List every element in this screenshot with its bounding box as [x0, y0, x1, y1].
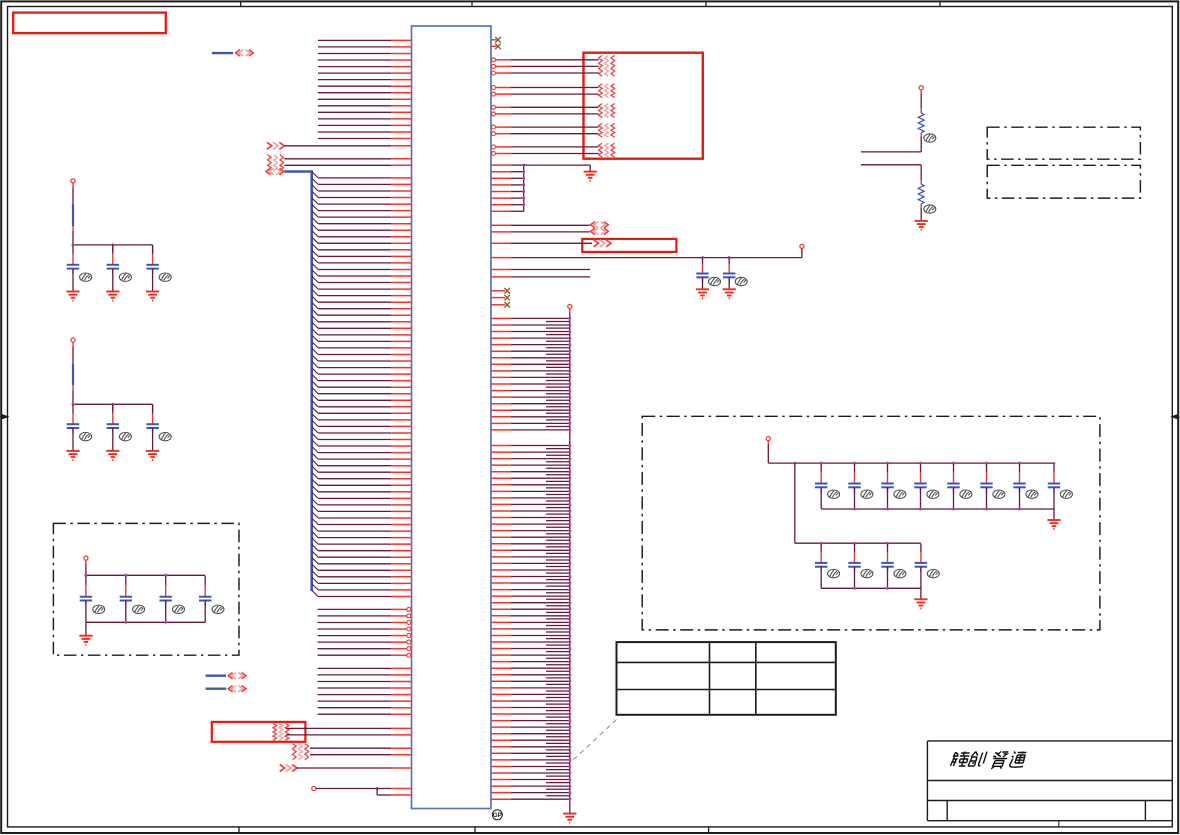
- junction: [522, 183, 525, 186]
- wire U1 right pin trunk: [491, 331, 511, 333]
- no-connect pin: [491, 304, 505, 306]
- wire trunk jog: [546, 690, 570, 692]
- capacitor C row1: [1019, 464, 1021, 473]
- wire trunk jog: [546, 353, 570, 355]
- junction: [985, 508, 988, 511]
- wire bus h: [73, 403, 153, 405]
- bus entry: [312, 329, 319, 335]
- wire U1 left pin bus: [318, 197, 391, 199]
- wire trunk jog: [546, 494, 570, 496]
- capacitor C row1: [820, 464, 822, 473]
- junction: [568, 383, 571, 386]
- wire U1 right pin trunk: [491, 324, 511, 326]
- wire U1 right pin term: [492, 132, 496, 136]
- part value mark: [924, 134, 936, 142]
- wire U1 left pin inv: [318, 628, 392, 630]
- junction: [1018, 462, 1021, 465]
- junction: [886, 542, 889, 545]
- wire bus h row2: [795, 542, 921, 544]
- wire U1 right pin trunk: [491, 733, 511, 735]
- part value mark: [93, 605, 105, 613]
- junction: [124, 574, 127, 577]
- wire trunk jog: [546, 327, 570, 329]
- wire: [165, 601, 167, 623]
- wire trunk jog: [546, 723, 570, 725]
- capacitor C row2: [887, 544, 889, 553]
- bus entry: [312, 342, 319, 348]
- junction: [568, 356, 571, 359]
- wire gnd collector vertical: [523, 165, 525, 211]
- part value mark: [1026, 490, 1038, 498]
- wire U1 right pin trunk: [491, 416, 511, 418]
- dash-dot box B: [987, 165, 1140, 198]
- junction: [568, 627, 571, 630]
- wire U1 right pin trunk: [491, 445, 511, 447]
- wire: [801, 249, 803, 258]
- junction: [568, 700, 571, 703]
- wire: [887, 567, 889, 589]
- wire U1 left pin group1: [318, 138, 391, 140]
- junction: [568, 510, 571, 513]
- part value mark: [173, 605, 185, 613]
- bus entry: [312, 538, 319, 544]
- wire U1 left pin bus: [318, 582, 391, 584]
- ground: [584, 172, 597, 181]
- wire U1 left pin bus: [318, 517, 391, 519]
- no-connect X: [504, 302, 510, 308]
- part value mark: [927, 490, 939, 498]
- junction: [952, 462, 955, 465]
- wire: [854, 567, 856, 589]
- assembly mark: [492, 810, 502, 820]
- wire U1 right pin trunk: [491, 779, 511, 781]
- svg-text:GP: GP: [493, 812, 502, 819]
- junction: [568, 317, 571, 320]
- wire U1 left pin group1: [318, 53, 391, 55]
- wire U1 left pin: [377, 794, 391, 796]
- wire U1 right pin trunk: [491, 523, 511, 525]
- junction: [522, 190, 525, 193]
- wire U1 left pin bus: [318, 190, 391, 192]
- bus entry: [312, 584, 319, 590]
- junction: [72, 243, 75, 246]
- junction: [568, 719, 571, 722]
- capacitor C row1: [986, 464, 988, 473]
- border zone tick top: [705, 1, 707, 6]
- wire U1 left pin bus: [318, 432, 391, 434]
- junction: [568, 595, 571, 598]
- wire U1 left pin bus: [318, 282, 391, 284]
- terminal: [84, 556, 88, 560]
- wire: [112, 269, 114, 292]
- wire U1 right pin trunk: [491, 661, 511, 663]
- revision table: [617, 642, 836, 715]
- junction: [568, 686, 571, 689]
- wire U1 left pin bus: [318, 439, 391, 441]
- terminal: [800, 244, 804, 248]
- junction: [568, 575, 571, 578]
- wire trunk jog: [546, 480, 570, 482]
- junction: [568, 470, 571, 473]
- wire U1 left pin bus: [318, 183, 391, 185]
- junction: [952, 508, 955, 511]
- junction: [568, 337, 571, 340]
- wire trunk jog: [546, 520, 570, 522]
- wire U1 left pin group4: [318, 700, 392, 702]
- terminal: [766, 437, 770, 441]
- wire U1 right pin term: [492, 125, 496, 129]
- border zone tick top: [471, 1, 473, 6]
- wire trunk jog: [546, 566, 570, 568]
- bus entry: [312, 505, 319, 511]
- part value mark: [927, 569, 939, 577]
- wire U1 right pin trunk: [491, 556, 511, 558]
- wire U1 left pin group1: [318, 124, 391, 126]
- capacitor C: [165, 576, 167, 585]
- wire: [953, 487, 955, 509]
- off-page connector: [266, 168, 270, 174]
- wire trunk jog: [546, 795, 570, 797]
- wire trunk jog: [546, 340, 570, 342]
- border zone tick top: [240, 1, 242, 6]
- no-connect pin: [491, 290, 505, 292]
- junction: [568, 641, 571, 644]
- wire gnd stem: [1053, 509, 1055, 520]
- wire U1 right pin trunk: [491, 503, 511, 505]
- junction: [568, 422, 571, 425]
- wire U1 right pin trunk: [491, 759, 511, 761]
- ground: [723, 289, 736, 298]
- wire U1 left pin bus: [318, 393, 391, 395]
- junction: [568, 634, 571, 637]
- junction: [568, 654, 571, 657]
- wire U1 left pin group1: [318, 79, 391, 81]
- bus entry: [312, 551, 319, 557]
- wire: [767, 441, 769, 445]
- capacitor C: [72, 246, 74, 255]
- wire trunk jog: [546, 788, 570, 790]
- wire U1 left pin bus: [318, 327, 391, 329]
- wire U1 left pin inv: [318, 641, 392, 643]
- wire U1 right pin term: [492, 112, 496, 116]
- wire U1 right pin trunk: [491, 409, 511, 411]
- junction: [568, 758, 571, 761]
- wire U1 left pin bus: [318, 380, 391, 382]
- wire trunk jog: [546, 334, 570, 336]
- part value mark: [212, 605, 224, 613]
- bus entry: [312, 237, 319, 243]
- bus entry: [312, 309, 319, 315]
- wire blue segment: [72, 205, 74, 227]
- wire U1 left pin inv: [318, 615, 392, 617]
- wire U1 right pin trunk: [491, 530, 511, 532]
- wire U1 left pin bus: [318, 340, 391, 342]
- wire U1 right pin gnd: [491, 164, 511, 166]
- off-page connector: [280, 765, 285, 772]
- junction: [820, 462, 823, 465]
- wire bus h row2 lower: [821, 587, 921, 589]
- wire stub net: [206, 688, 227, 690]
- wire U1 right pin trunk: [491, 595, 511, 597]
- junction: [568, 516, 571, 519]
- capacitor C: [85, 576, 87, 585]
- wire: [85, 601, 87, 623]
- wire U1 right pin trunk: [491, 785, 511, 787]
- junction: [568, 745, 571, 748]
- wire U1 left pin bus: [318, 543, 391, 545]
- junction: [124, 621, 127, 624]
- wire U1 left pin group4: [318, 667, 392, 669]
- bus entry: [312, 224, 319, 230]
- junction: [568, 673, 571, 676]
- wire U1 left pin group1: [318, 111, 391, 113]
- junction: [568, 660, 571, 663]
- wire U1 right pin: [491, 269, 511, 271]
- wire U1 left pin bus: [318, 223, 391, 225]
- junction: [522, 177, 525, 180]
- wire U1 left pin: [284, 145, 391, 147]
- resistor pack box: [584, 53, 703, 159]
- junction: [886, 587, 889, 590]
- junction: [886, 462, 889, 465]
- wire U1 left pin bus: [318, 412, 391, 414]
- bus entry: [312, 335, 319, 341]
- bus B1 vertical: [310, 170, 313, 591]
- bus entry: [312, 374, 319, 380]
- wire trunk jog: [546, 426, 570, 428]
- wire U1 right pin term: [492, 86, 496, 90]
- wire U1 right pin gnd: [491, 210, 511, 212]
- title text 緯創資通: [950, 752, 970, 767]
- wire trunk jog: [546, 448, 570, 450]
- junction: [568, 464, 571, 467]
- junction: [568, 402, 571, 405]
- wire trunk jog: [546, 736, 570, 738]
- wire U1 left pin bus: [318, 321, 391, 323]
- wire U1 left pin bus: [318, 510, 391, 512]
- wire: [986, 487, 988, 509]
- wire U1 left pin bus: [318, 530, 391, 532]
- junction: [568, 791, 571, 794]
- junction: [522, 203, 525, 206]
- junction: [701, 256, 704, 259]
- wire trunk jog: [546, 399, 570, 401]
- capacitor C: [152, 246, 154, 255]
- resistor R group B: [599, 84, 603, 98]
- junction: [568, 363, 571, 366]
- wire: [85, 560, 87, 564]
- wire U1 left pin bus: [318, 373, 391, 375]
- junction: [1018, 508, 1021, 511]
- off-page connector: [228, 673, 232, 679]
- wire U1 left pin bus: [318, 360, 391, 362]
- part value mark: [993, 490, 1005, 498]
- wire U1 left pin bus: [318, 203, 391, 205]
- wire: [72, 385, 74, 390]
- wire trunk jog: [546, 406, 570, 408]
- title block: [927, 741, 1172, 827]
- wire U1 left pin bus: [318, 589, 391, 591]
- part value mark: [119, 432, 131, 440]
- wire trunk jog: [546, 638, 570, 640]
- junction: [568, 451, 571, 454]
- part value mark: [861, 490, 873, 498]
- junction: [164, 621, 167, 624]
- wire U1 right pin trunk: [491, 569, 511, 571]
- wire U1 right pin trunk: [491, 713, 511, 715]
- junction: [568, 549, 571, 552]
- wire trunk jog: [546, 467, 570, 469]
- bus B1 horizontal: [284, 170, 311, 173]
- wire U1 right pin term: [492, 64, 496, 68]
- wire U1 right pin trunk: [491, 357, 511, 359]
- terminal: [71, 179, 75, 183]
- wire U1 left pin bus: [318, 445, 391, 447]
- capacitor C row1: [1053, 464, 1055, 473]
- off-page connector wavy: [293, 744, 297, 760]
- wire U1 left pin bus: [318, 216, 391, 218]
- wire trunk jog: [546, 605, 570, 607]
- part value mark: [80, 432, 92, 440]
- bus entry: [312, 479, 319, 485]
- wire U1 right pin term: [492, 145, 496, 149]
- wire U1 left pin bus: [318, 497, 391, 499]
- part value mark: [80, 273, 92, 281]
- wire trunk jog: [546, 526, 570, 528]
- wire U1 right pin trunk: [491, 608, 511, 610]
- junction: [568, 608, 571, 611]
- wire trunk jog: [546, 373, 570, 375]
- junction: [376, 787, 379, 790]
- wire U1 left pin bus: [318, 576, 391, 578]
- bus entry: [312, 198, 319, 204]
- capacitor C: [112, 405, 114, 414]
- wire: [152, 428, 154, 451]
- junction: [568, 324, 571, 327]
- wire U1 right pin term: [492, 152, 496, 156]
- wire U1 left pin bus: [318, 177, 391, 179]
- wire U1 right pin trunk: [491, 543, 511, 545]
- wire U1 right pin gnd: [491, 177, 511, 179]
- wire U1 right pin trunk: [491, 687, 511, 689]
- wire U1 left pin: [284, 164, 391, 166]
- wire U1 left pin: [286, 727, 391, 729]
- part value mark: [960, 490, 972, 498]
- wire U1 left pin bus: [318, 491, 391, 493]
- bus entry: [312, 544, 319, 550]
- wire U1 left pin bus: [318, 484, 391, 486]
- ground: [79, 636, 92, 645]
- bus entry: [312, 531, 319, 537]
- off-page connector: [267, 142, 272, 149]
- wire U1 left pin bus: [318, 269, 391, 271]
- bus entry: [312, 276, 319, 282]
- junction: [919, 508, 922, 511]
- junction: [568, 739, 571, 742]
- wire U1 left pin group4: [318, 707, 392, 709]
- wire U1 left pin bus: [318, 471, 391, 473]
- wire U1 left pin bus: [318, 399, 391, 401]
- wire U1 left pin bus: [318, 334, 391, 336]
- wire U1 right pin trunk: [491, 648, 511, 650]
- wire U1 left pin bus: [318, 556, 391, 558]
- wire U1 right pin: [491, 224, 511, 226]
- bus entry: [312, 381, 319, 387]
- wire: [316, 788, 377, 790]
- wire: [861, 164, 921, 166]
- wire trunk jog: [546, 618, 570, 620]
- wire bus h lower: [86, 621, 205, 623]
- wire trunk jog: [546, 461, 570, 463]
- junction: [568, 732, 571, 735]
- wire trunk jog: [546, 651, 570, 653]
- border zone tick top: [939, 1, 941, 6]
- wire: [376, 789, 378, 796]
- wire U1 left pin group4: [318, 713, 392, 715]
- capacitor C row1: [887, 464, 889, 473]
- bus entry: [312, 348, 319, 354]
- junction: [568, 330, 571, 333]
- junction: [568, 798, 571, 801]
- wire U1 right pin trunk: [491, 792, 511, 794]
- wire U1 left pin bus: [318, 295, 391, 297]
- junction: [820, 542, 823, 545]
- wire U1 right pin trunk: [491, 376, 511, 378]
- wire gnd stem: [85, 622, 87, 635]
- bus entry: [312, 486, 319, 492]
- junction: [568, 457, 571, 460]
- wire trunk jog: [546, 552, 570, 554]
- junction: [568, 706, 571, 709]
- bus entry: [312, 178, 319, 184]
- wire trunk jog: [546, 487, 570, 489]
- resistor R1: [918, 113, 924, 133]
- wire trunk jog: [546, 742, 570, 744]
- wire U1 left pin bus: [318, 308, 391, 310]
- wire U1 right pin trunk: [491, 370, 511, 372]
- resistor R group E: [599, 143, 603, 157]
- bus entry: [312, 302, 319, 308]
- wire U1 right pin trunk: [491, 429, 511, 431]
- border zone arrow right: [1170, 414, 1178, 420]
- wire U1 right pin term: [492, 58, 496, 62]
- wire trunk jog: [546, 697, 570, 699]
- no-connect pin: [491, 39, 497, 41]
- wire trunk vertical: [569, 313, 571, 814]
- title reference box: [13, 13, 166, 33]
- bus entry: [312, 263, 319, 269]
- wire U1 right pin trunk: [491, 635, 511, 637]
- no-connect X: [495, 44, 501, 50]
- wire U1 left pin group4: [318, 687, 392, 689]
- part value mark: [133, 605, 145, 613]
- bus entry: [312, 466, 319, 472]
- border zone tick bottom: [708, 827, 710, 834]
- junction: [568, 396, 571, 399]
- wire U1 right pin trunk: [491, 497, 511, 499]
- capacitor C: [152, 405, 154, 414]
- wire: [920, 165, 922, 180]
- wire U1 left pin bus: [318, 354, 391, 356]
- wire U1 right pin trunk: [491, 458, 511, 460]
- wire U1 left pin group1: [318, 39, 391, 41]
- bus entry: [312, 433, 319, 439]
- wire trunk jog: [546, 454, 570, 456]
- wire gnd stem: [589, 165, 591, 172]
- wire U1 left pin group1: [318, 98, 391, 100]
- wire blue segment: [72, 364, 74, 386]
- wire bus h row1: [768, 462, 1055, 464]
